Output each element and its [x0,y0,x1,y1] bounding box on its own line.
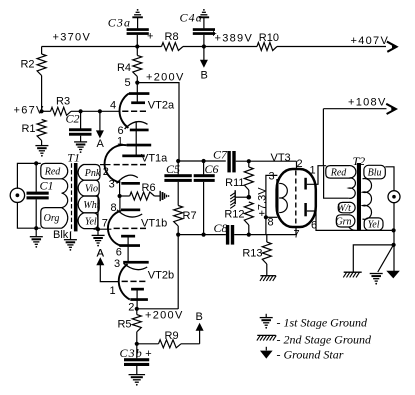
wire +67V to R3 [42,110,51,112]
svg-text:- Ground Star: - Ground Star [277,348,344,362]
svg-text:8: 8 [268,217,274,229]
svg-text:R11: R11 [225,177,244,189]
ground (1st stage) above C3a [132,16,143,18]
svg-text:A: A [97,138,105,150]
T2 primary flag Grn [336,215,355,227]
svg-text:Wht: Wht [83,200,99,211]
wire C3b to ground [136,366,138,374]
legend 1st stage ground icon [265,314,267,318]
T1 core dashed shield [71,163,73,231]
wire Blu to output jack [385,167,394,191]
wire +370V rail left segment [42,46,162,48]
wire C4a ground stem [203,17,205,28]
VT3 cathode bar [276,179,278,215]
svg-text:4: 4 [110,100,116,112]
wire top bus [178,160,226,162]
svg-text:R1: R1 [21,123,35,135]
T1 secondary flag Wht [78,196,99,213]
svg-text:+407V: +407V [351,35,390,47]
svg-text:B: B [196,311,203,323]
node Vio/ground junction [96,227,100,231]
wire VT1a cathode down to R6 node [119,181,121,196]
svg-text:A: A [97,248,105,260]
wire C3a to +370V rail [136,35,138,47]
resistor R2 [37,54,46,76]
wire pin5 to +200V corner [137,83,179,161]
node R11/R12 junction [247,195,252,200]
svg-text:+389V: +389V [215,32,254,44]
wire input top [17,163,40,188]
resistor R9 [137,343,159,345]
T1 primary winding loops [62,179,68,208]
wire diagonal to 1st stage ground [378,246,393,272]
svg-text:+200V: +200V [145,309,184,321]
node Yel/pin6 bus [392,228,396,232]
wire VT3 pin 6 lead [307,211,394,230]
wire T1 Pnk to VT1a grid [100,164,111,166]
wire +370V down to R2 [41,47,43,55]
node R11 top [247,159,251,163]
svg-text:C3a: C3a [108,15,131,29]
ground (1st stage) above C4a [199,16,210,18]
VT3 heater coils [279,183,287,212]
svg-text:Red: Red [44,167,62,178]
node pin 8 junction [264,215,268,219]
svg-text:VT2b: VT2b [148,269,174,281]
node: C4a / rail junction [202,44,206,48]
svg-text:2: 2 [103,166,109,178]
input jack [10,188,24,202]
T1 secondary flag Yel [78,213,98,229]
svg-text:5: 5 [125,77,131,89]
svg-text:1: 1 [110,285,116,297]
svg-text:VT1b: VT1b [141,217,167,229]
T2 primary flag W/t [338,202,355,213]
capacitor C3b [136,344,138,359]
T1 secondary flag Pnk [78,165,100,181]
wire input bottom [17,202,40,228]
wire C6 to lower bus [203,182,205,235]
wire R10 to +407V output [277,46,386,48]
svg-text:- 2nd Stage Ground: - 2nd Stage Ground [277,333,373,347]
wire C4a to rail [203,35,205,47]
tube VT1a [105,144,152,185]
tube VT2a [120,83,150,132]
T2 core [357,163,361,231]
net A down-arrow at C2 node [99,111,101,132]
net A up-arrow to VT2b grid [96,257,104,265]
node top bus left [176,159,180,163]
capacitor C7 [227,151,230,172]
T2 secondary winding loops [363,179,372,220]
T2 primary winding loops [349,178,356,198]
svg-text:R2: R2 [20,59,34,71]
wire VT2b grid to net A riser [100,264,119,282]
ground below T1 core [70,231,72,239]
svg-text:Red: Red [330,167,348,178]
svg-text:+370V: +370V [53,32,92,44]
resistor R13 [262,242,271,264]
node A-arrow junction [98,109,102,113]
wire jack to ground star [393,203,395,272]
svg-text:Grn: Grn [335,217,351,228]
wire VT2b plate to R7 column [137,308,178,310]
tube VT1b [108,209,146,247]
ground (1st stage, sideways) after R6 [159,191,161,201]
node R5/C3b/R9 junction [135,342,139,346]
wire VT3 grid drop [296,161,298,169]
wire Vio to ground [97,195,99,230]
svg-text:+108V: +108V [348,96,387,108]
legend 2nd stage ground icon [257,334,276,336]
wire VT3 pin 7 lead [295,227,297,234]
svg-text:Yel: Yel [368,220,380,231]
tube VT3 envelope [277,169,316,227]
wire VT2a cathode to VT1a plate [135,122,137,155]
capacitor C1 [35,163,37,191]
ground below C1 [35,228,37,236]
VT3 grid (dashed) [295,171,297,226]
svg-text:3: 3 [114,258,120,270]
svg-text:VT2a: VT2a [148,100,175,112]
resistor R1 [37,120,46,141]
svg-text:+: + [147,30,153,42]
node +67V junction [40,109,44,113]
svg-text:Vio: Vio [85,184,98,195]
node C6 top [202,159,206,163]
svg-text:2: 2 [128,302,134,314]
wire T2 primary parallel loop [324,166,349,198]
T2 secondary flag Blu [364,165,385,179]
legend ground star icon [265,347,267,351]
svg-text:C6: C6 [205,162,219,176]
ground below Yel wire [97,229,99,235]
T2 primary flag Red [326,166,356,179]
svg-text:R3: R3 [56,96,70,108]
svg-text:B: B [201,69,208,81]
svg-text:Org: Org [44,213,60,224]
resistor R8 [162,43,184,51]
resistor R11 [248,161,250,167]
svg-text:C7: C7 [213,147,228,161]
resistor R12 [244,202,253,225]
wire Yel to VT1b grid [94,228,112,230]
wire lower bus left [178,234,226,236]
ground star arrow [386,271,400,279]
wire C3a ground stem [137,17,139,28]
svg-text:6: 6 [116,247,122,259]
ground (2nd stage, sideways) at R11/R12 [234,190,236,204]
wire R1 to ground [41,141,43,146]
capacitor C3a [127,28,149,31]
svg-text:VT3: VT3 [271,152,291,164]
VT3 plate bar upper (pin 1) [304,178,307,190]
svg-text:C2: C2 [66,112,80,126]
svg-text:T1: T1 [67,150,80,164]
capacitor C6 [203,161,205,174]
svg-text:7: 7 [294,229,300,241]
svg-text:Blu: Blu [368,168,382,179]
wire VT3 pin 8 lead [266,216,278,218]
svg-text:R5: R5 [117,319,131,331]
T1 primary flag Org [41,208,68,229]
svg-text:+: + [145,348,151,360]
svg-text:3: 3 [109,178,115,190]
ground (1st stage) below R1 [35,145,48,147]
node R6 / cathodes junction [118,194,122,198]
svg-text:R8: R8 [165,31,179,43]
wire VT3 pin 3 lead [266,175,278,234]
svg-text:R9: R9 [165,330,179,342]
net B down-arrow at C4a [203,47,205,62]
resistor R6 [120,195,130,197]
resistor R10 [257,43,277,51]
node R12 bottom [247,233,251,237]
svg-text:R12: R12 [224,209,244,221]
ground (1st stage) bottom right [370,273,383,275]
svg-text:R7: R7 [183,210,197,222]
net B up-arrow at R9 [199,330,201,344]
resistor R3 [51,107,72,115]
wire +108V horizontal [323,108,386,110]
svg-text:Yel: Yel [85,216,97,227]
resistor R7 [177,182,179,206]
node C2 junction [79,109,83,113]
ground (2nd stage) below R13 [260,275,276,277]
svg-text:R10: R10 [259,32,279,44]
capacitor C5 [177,161,179,174]
svg-text:- 1st Stage Ground: - 1st Stage Ground [277,315,369,329]
output jack [388,191,400,203]
ground below C3b [129,374,146,376]
svg-text:1: 1 [310,165,316,177]
wire R6 node down to VT1b cathode [119,196,121,212]
wire rail R8 to C4a [183,46,257,48]
svg-text:C1: C1 [40,179,54,193]
node: C3a / rail junction [135,44,139,48]
wire C7 to VT3 grid [236,160,297,162]
node ground star junction [392,243,396,247]
capacitor C8 [226,225,229,245]
svg-text:VT1a: VT1a [141,153,168,165]
capacitor C2 [80,111,82,128]
wire Grn bottom tail [349,227,356,230]
svg-text:6: 6 [311,220,317,232]
svg-text:7: 7 [102,217,108,229]
svg-text:C5: C5 [166,162,180,176]
svg-text:C8: C8 [214,221,228,235]
arrow +407V [387,42,397,52]
resistor R4 [136,47,138,56]
wire to 2nd stage ground [236,196,249,198]
svg-text:+7.3V: +7.3V [257,187,269,217]
svg-text:R6: R6 [142,182,156,194]
svg-text:R13: R13 [242,248,262,260]
node C1 bottom [34,226,38,230]
wire VT1b plate to VT2b cathode [127,238,129,262]
arrow +108V [386,104,396,114]
ground (1st stage) below C2 [74,141,87,143]
node VT2b plate junction [135,307,139,311]
svg-text:+200V: +200V [146,71,185,83]
wire VT3 pin 1 lead [307,166,326,185]
T1 secondary flag Vio [78,180,99,196]
node C6 bottom [202,233,206,237]
node pin 5 junction [135,81,139,85]
T2 secondary flag Yel [364,218,383,230]
T1 core bar [74,163,78,231]
svg-text:3: 3 [269,171,275,183]
wire lower bus right [234,234,296,236]
T1 primary flag Red [41,163,68,178]
wire R2 to +67V node [41,76,43,112]
node R7 lower bus junction [176,233,180,237]
wire VT2b plate lead [136,291,138,309]
node C1 top [34,161,38,165]
wire to 2nd stage ground (T2) [353,245,393,272]
ground (2nd stage) bottom right [344,271,362,273]
wire +108V riser [322,109,324,166]
svg-text:C3b: C3b [120,346,143,360]
wire R3 to VT2a grid [71,110,120,112]
capacitor C4a [193,28,215,31]
resistor R5 [136,309,138,315]
tube VT2b [119,261,149,301]
svg-text:W/t: W/t [337,203,351,214]
svg-text:C4a: C4a [180,11,203,25]
svg-text:Pnk: Pnk [84,168,101,179]
svg-text:R4: R4 [117,62,131,74]
VT3 plate bar lower (pin 6) [304,203,307,216]
